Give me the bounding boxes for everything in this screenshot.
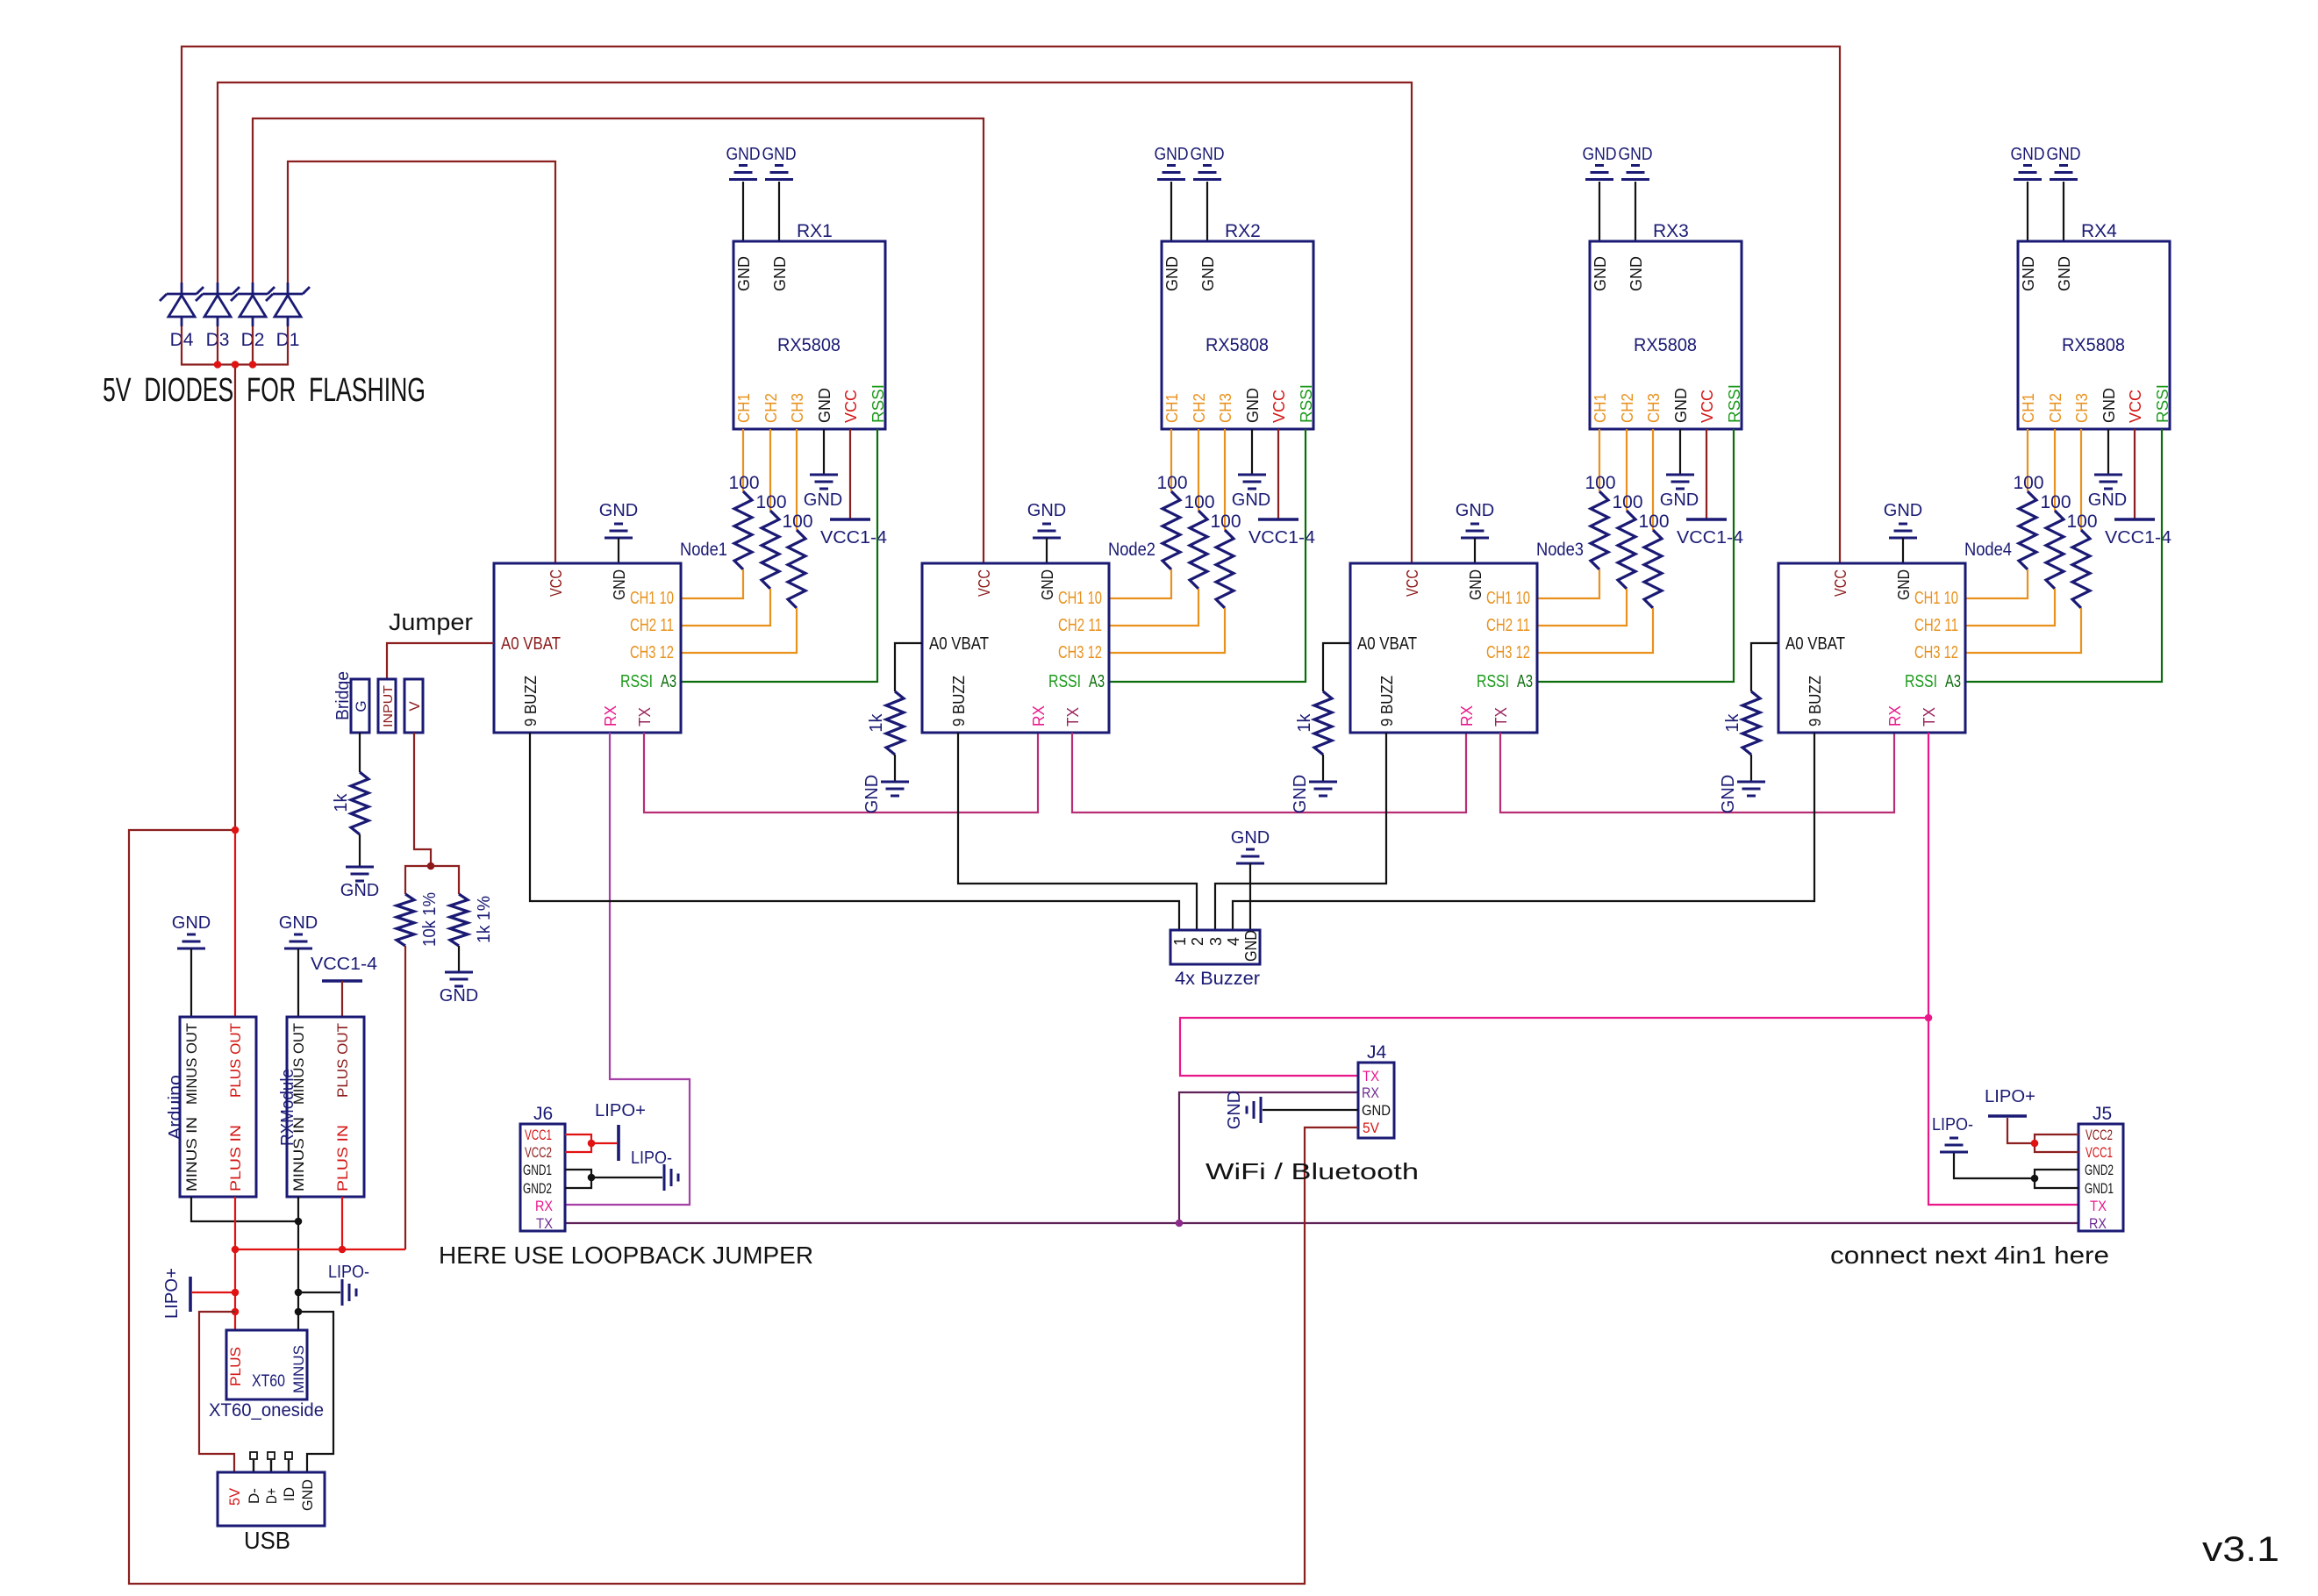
- svg-text:A0 VBAT: A0 VBAT: [929, 634, 989, 654]
- supply VCC1-4 at RX3: [1677, 519, 1743, 548]
- svg-text:GND: GND: [1244, 388, 1262, 423]
- ground GND left above RX2: [1155, 145, 1189, 180]
- svg-text:A3: A3: [661, 672, 676, 691]
- wire RX2 GND pin2 to ground: [1206, 182, 1208, 241]
- svg-text:PLUS: PLUS: [227, 1347, 244, 1386]
- svg-text:VCC1: VCC1: [525, 1127, 552, 1143]
- resistor 100 CH1 channel 3: [1585, 473, 1615, 569]
- svg-text:V: V: [406, 701, 423, 712]
- terminal LIPO+ at J5: [1985, 1087, 2035, 1116]
- wire J6 GND1 GND2 to LIPO-: [565, 1170, 591, 1188]
- svg-text:MINUS OUT: MINUS OUT: [183, 1023, 200, 1105]
- svg-text:Node3: Node3: [1536, 540, 1584, 560]
- svg-text:CH1 10: CH1 10: [1914, 589, 1958, 608]
- svg-text:GND1: GND1: [523, 1162, 552, 1178]
- svg-text:GND: GND: [340, 881, 379, 900]
- svg-text:GND: GND: [1719, 775, 1738, 813]
- ground above Node3: [1456, 501, 1494, 538]
- wire buzzer GND: [1249, 863, 1251, 930]
- svg-text:GND: GND: [816, 388, 833, 423]
- resistor 1k at Node3: [1295, 691, 1332, 755]
- ground at J4: [1225, 1091, 1261, 1129]
- wire RX1 RSSI to Node1 RSSI: [681, 429, 877, 682]
- svg-text:100: 100: [1156, 473, 1187, 493]
- wire RX1 GND pin1 to ground: [742, 182, 744, 241]
- resistor 100 CH1 channel 2: [1156, 473, 1187, 569]
- svg-text:GND1: GND1: [2085, 1180, 2114, 1197]
- resistor 100 CH3 channel 2: [1210, 512, 1241, 608]
- svg-text:100: 100: [782, 512, 812, 532]
- wire RX3 GND pin1 to ground: [1599, 182, 1600, 241]
- wire resistor to Node3 CH2: [1537, 589, 1627, 626]
- wire RX4 GND pin to ground: [2107, 429, 2109, 474]
- wire serial Node2 TX to Node3 RX: [1072, 733, 1466, 812]
- svg-text:RX4: RX4: [2081, 221, 2117, 241]
- supply VCC1-4 at RX4: [2105, 519, 2171, 548]
- svg-text:GND: GND: [1231, 828, 1270, 848]
- wire J6 TX to J5 RX: [565, 1222, 2078, 1224]
- ground below Node4 1k: [1719, 775, 1765, 813]
- wire resistor to Node4 CH1: [1965, 569, 2028, 598]
- wire resistor to Node4 CH3: [1965, 608, 2081, 653]
- svg-text:10k 1%: 10k 1%: [420, 892, 440, 947]
- svg-text:CH3: CH3: [789, 393, 806, 423]
- svg-text:PLUS OUT: PLUS OUT: [334, 1023, 351, 1098]
- pad USB D+: [268, 1452, 275, 1472]
- wire RX3 CH3 to resistor: [1652, 429, 1654, 530]
- junction J5 GND: [2031, 1175, 2039, 1183]
- wire RX2 VCC to supply: [1277, 429, 1279, 519]
- svg-text:VCC: VCC: [1832, 569, 1849, 597]
- connector Bridge pin V: [404, 679, 423, 733]
- connector Bridge pin G: [351, 679, 369, 733]
- ground below Node2 1k: [862, 775, 909, 813]
- svg-text:5V: 5V: [226, 1487, 243, 1506]
- ground below RX3 GND pin: [1660, 475, 1699, 510]
- svg-text:CH3 12: CH3 12: [1486, 643, 1530, 662]
- wire J6 VCC1 VCC2 to LIPO+: [565, 1134, 591, 1152]
- connector 4x Buzzer: [1170, 930, 1260, 989]
- junction LIPO+: [232, 1289, 240, 1297]
- junction MINUS IN: [295, 1218, 303, 1226]
- junction LIPO-: [295, 1289, 303, 1297]
- terminal LIPO- at J6: [631, 1149, 678, 1191]
- wire J5 VCC1 VCC2 to LIPO+: [2035, 1134, 2078, 1152]
- svg-text:GND: GND: [1242, 930, 1260, 962]
- svg-text:VCC1: VCC1: [2085, 1144, 2113, 1161]
- svg-text:TX: TX: [1492, 707, 1510, 726]
- svg-text:GND: GND: [1027, 501, 1066, 520]
- svg-text:GND: GND: [1592, 256, 1609, 291]
- svg-text:CH3 12: CH3 12: [1058, 643, 1102, 662]
- wire RX4 VCC to supply: [2134, 429, 2136, 519]
- wire resistor to Node1 CH3: [681, 608, 797, 653]
- wire Node2 A0 VBAT to 1k: [895, 643, 922, 691]
- junction J6 VCC: [588, 1140, 596, 1148]
- svg-text:RSSI: RSSI: [1477, 672, 1509, 691]
- connector J5: [2078, 1104, 2123, 1232]
- junction diode bus / 5V feed: [232, 361, 240, 369]
- wire Node2 GND pin to ground: [1046, 538, 1048, 563]
- svg-text:RX5808: RX5808: [777, 335, 841, 355]
- junction J5 VCC: [2031, 1140, 2039, 1148]
- svg-text:USB: USB: [244, 1527, 290, 1554]
- wire RX4 GND pin2 to ground: [2063, 182, 2064, 241]
- wire RX3 GND pin2 to ground: [1635, 182, 1636, 241]
- wire 5V feed down from diode bus: [234, 365, 236, 831]
- wire diode bus D3 stub: [217, 326, 218, 365]
- resistor 100 CH3 channel 4: [2066, 512, 2097, 608]
- node block Node2: [922, 563, 1109, 733]
- svg-text:CH3 12: CH3 12: [1914, 643, 1958, 662]
- svg-text:G: G: [353, 700, 369, 712]
- svg-text:RX: RX: [1458, 705, 1476, 726]
- wire Node4 TX down: [1928, 733, 1929, 1018]
- svg-text:RX3: RX3: [1653, 221, 1689, 241]
- wire resistor to Node2 CH2: [1109, 589, 1198, 626]
- connector XT60: [209, 1330, 324, 1421]
- wire Arduino PLUS OUT to 5V feed: [234, 830, 236, 1017]
- svg-text:VCC2: VCC2: [525, 1144, 552, 1161]
- svg-text:VCC: VCC: [547, 569, 565, 597]
- svg-text:9 BUZZ: 9 BUZZ: [522, 676, 540, 726]
- junction PLUS IN RXModule: [339, 1246, 347, 1254]
- svg-text:CH1: CH1: [1592, 393, 1609, 423]
- wire RX3 VCC to supply: [1706, 429, 1707, 519]
- node block Node1: [494, 563, 681, 733]
- wire serial Node3 TX to Node4 RX: [1500, 733, 1894, 812]
- svg-text:GND: GND: [1191, 145, 1225, 164]
- wire resistor to Node4 CH2: [1965, 589, 2055, 626]
- svg-text:CH3: CH3: [1217, 393, 1234, 423]
- svg-text:RX: RX: [602, 705, 619, 726]
- svg-text:RX: RX: [1886, 705, 1904, 726]
- wire V to divider: [414, 733, 431, 866]
- ground below 1k 1%: [440, 972, 478, 1006]
- svg-text:CH1 10: CH1 10: [630, 589, 674, 608]
- svg-text:LIPO-: LIPO-: [631, 1149, 672, 1168]
- svg-text:PLUS OUT: PLUS OUT: [227, 1023, 244, 1098]
- wire RX2 RSSI to Node2 RSSI: [1109, 429, 1306, 682]
- wire J4 RX drop: [1179, 1092, 1358, 1223]
- wire Node1 A0 VBAT to INPUT jumper: [387, 643, 494, 679]
- junction XT60 PLUS: [232, 1308, 240, 1316]
- svg-text:1k 1%: 1k 1%: [475, 896, 494, 943]
- junction XT60 MINUS: [295, 1308, 303, 1316]
- wire RX1 GND pin2 to ground: [778, 182, 780, 241]
- junction J6 GND: [588, 1174, 596, 1182]
- module RX4 RX5808: [2018, 221, 2171, 429]
- svg-text:1k: 1k: [1295, 712, 1314, 732]
- wire Node4 BUZZ to buzzer pin 4: [1233, 733, 1814, 930]
- svg-text:100: 100: [2040, 492, 2071, 512]
- connector USB: [218, 1472, 325, 1554]
- svg-text:CH3: CH3: [1645, 393, 1663, 423]
- ground above Arduino: [172, 913, 211, 948]
- svg-text:5V: 5V: [1363, 1120, 1380, 1136]
- svg-text:CH1: CH1: [2020, 393, 2037, 423]
- wire 10k to PLUS IN bus: [404, 946, 406, 1249]
- svg-text:J5: J5: [2093, 1104, 2112, 1124]
- wire VBAT bus D3 to Node3 VCC: [218, 82, 1412, 563]
- svg-text:GND: GND: [1225, 1091, 1244, 1129]
- svg-text:A3: A3: [1089, 672, 1105, 691]
- wire divider to 10k: [405, 866, 431, 894]
- svg-text:GND: GND: [172, 913, 211, 933]
- wire serial Node1 TX to Node2 RX: [644, 733, 1038, 812]
- svg-text:A0 VBAT: A0 VBAT: [1785, 634, 1845, 654]
- svg-text:GND: GND: [804, 490, 842, 510]
- wire XT60 MINUS stub: [297, 1312, 299, 1330]
- svg-text:GND: GND: [1155, 145, 1189, 164]
- svg-text:VCC: VCC: [976, 569, 993, 597]
- diode D3: [196, 283, 240, 326]
- svg-text:RSSI: RSSI: [869, 384, 887, 423]
- svg-text:GND: GND: [726, 145, 761, 164]
- svg-text:CH1: CH1: [1163, 393, 1181, 423]
- svg-text:100: 100: [1638, 512, 1669, 532]
- svg-text:LIPO-: LIPO-: [1932, 1115, 1973, 1134]
- diode D1: [266, 283, 310, 326]
- svg-text:GND: GND: [2088, 490, 2127, 510]
- svg-text:J4: J4: [1367, 1042, 1387, 1063]
- pad USB D-: [250, 1452, 257, 1472]
- svg-text:GND: GND: [1291, 775, 1310, 813]
- ground below bridge 1k: [340, 867, 379, 900]
- resistor 100 CH3 channel 1: [782, 512, 812, 608]
- junction divider node: [427, 862, 435, 870]
- svg-text:RX1: RX1: [797, 221, 833, 241]
- connector J6: [520, 1104, 565, 1232]
- block RXModule: [278, 1017, 364, 1197]
- svg-text:TX: TX: [636, 707, 654, 726]
- wire XT60 PLUS stub: [234, 1312, 236, 1330]
- svg-text:CH2: CH2: [1619, 393, 1636, 423]
- wire RX1 CH3 to resistor: [796, 429, 798, 530]
- svg-text:1k: 1k: [1723, 712, 1742, 732]
- wire diode anode bus: [182, 326, 288, 365]
- svg-text:3: 3: [1207, 937, 1225, 946]
- svg-text:100: 100: [1210, 512, 1241, 532]
- terminal LIPO+ bottom: [162, 1268, 190, 1319]
- svg-text:GND: GND: [1199, 256, 1217, 291]
- svg-text:RX: RX: [535, 1198, 553, 1214]
- ground below RX1 GND pin: [804, 475, 842, 510]
- ground below Node3 1k: [1291, 775, 1337, 813]
- block Arduino: [166, 1017, 256, 1197]
- svg-text:J6: J6: [533, 1104, 553, 1124]
- wire RXModule PLUS IN stub: [341, 1197, 343, 1249]
- svg-text:WiFi / Bluetooth: WiFi / Bluetooth: [1206, 1158, 1419, 1184]
- svg-text:100: 100: [1612, 492, 1642, 512]
- svg-text:connect next 4in1 here: connect next 4in1 here: [1830, 1242, 2109, 1269]
- svg-text:GND: GND: [1583, 145, 1617, 164]
- wire RX1 GND pin to ground: [823, 429, 825, 474]
- connector J4: [1358, 1042, 1394, 1138]
- wire 1k to ground Node3: [1322, 755, 1324, 782]
- pad USB ID: [285, 1452, 292, 1472]
- svg-text:XT60_oneside: XT60_oneside: [209, 1400, 324, 1421]
- wire RX1 CH1 to resistor: [742, 429, 744, 491]
- wire RX3 GND pin to ground: [1679, 429, 1681, 474]
- svg-text:CH1: CH1: [735, 393, 753, 423]
- diode D4: [160, 283, 204, 326]
- wire Arduino PLUS IN vertical: [234, 1197, 236, 1312]
- ground GND right above RX4: [2047, 145, 2081, 180]
- svg-text:1: 1: [1171, 937, 1189, 946]
- svg-text:1k: 1k: [867, 712, 886, 732]
- wire J5 GND1 GND2 to LIPO-: [2035, 1170, 2078, 1188]
- svg-text:9 BUZZ: 9 BUZZ: [1378, 676, 1396, 726]
- svg-text:ID: ID: [281, 1487, 297, 1501]
- wire TX net to J4 TX: [1180, 1018, 1928, 1076]
- wire resistor to Node2 CH3: [1109, 608, 1225, 653]
- svg-text:4x Buzzer: 4x Buzzer: [1175, 969, 1260, 989]
- ground above Node4: [1884, 501, 1922, 538]
- wire TX net to J5 TX: [1928, 1018, 2078, 1205]
- wire VBAT bus D4 to Node4 VCC: [182, 47, 1840, 563]
- svg-text:VCC: VCC: [842, 390, 860, 423]
- svg-text:CH3: CH3: [2073, 393, 2091, 423]
- svg-text:100: 100: [1585, 473, 1615, 493]
- wire resistor to Node1 CH1: [681, 569, 743, 598]
- wire VBAT bus D1 to Node1 VCC: [288, 161, 555, 563]
- wire Node1 BUZZ to buzzer pin 1: [530, 733, 1179, 930]
- wire 1k to ground: [359, 834, 361, 867]
- svg-text:GND: GND: [862, 775, 882, 813]
- svg-text:GND: GND: [1884, 501, 1922, 520]
- svg-text:1k: 1k: [332, 792, 351, 812]
- svg-text:GND: GND: [279, 913, 318, 933]
- wire Node4 A0 VBAT to 1k: [1751, 643, 1778, 691]
- wire divider to 1k 1%: [431, 866, 459, 894]
- svg-text:GND: GND: [440, 986, 478, 1006]
- ground above RXModule: [279, 913, 318, 948]
- svg-text:CH2 11: CH2 11: [1914, 616, 1958, 635]
- ground GND right above RX2: [1191, 145, 1225, 180]
- node block Node4: [1778, 563, 1965, 733]
- svg-text:GND2: GND2: [523, 1180, 552, 1197]
- svg-text:MINUS OUT: MINUS OUT: [290, 1023, 307, 1105]
- svg-text:TX: TX: [1363, 1068, 1379, 1084]
- svg-text:RSSI: RSSI: [1048, 672, 1081, 691]
- wire RX1 VCC to supply: [849, 429, 851, 519]
- svg-text:VCC: VCC: [2127, 390, 2144, 423]
- svg-text:v3.1: v3.1: [2202, 1530, 2279, 1569]
- svg-text:VCC: VCC: [1404, 569, 1421, 597]
- svg-text:RSSI: RSSI: [2154, 384, 2171, 423]
- ground below RX4 GND pin: [2088, 475, 2127, 510]
- wire RX2 CH1 to resistor: [1170, 429, 1172, 491]
- supply VCC1-4 at RX2: [1248, 519, 1315, 548]
- svg-text:GND: GND: [2020, 256, 2037, 291]
- svg-text:RX: RX: [2089, 1215, 2107, 1232]
- svg-text:RSSI: RSSI: [1298, 384, 1315, 423]
- ground above Node2: [1027, 501, 1066, 538]
- svg-text:9 BUZZ: 9 BUZZ: [950, 676, 968, 726]
- wire RX4 CH2 to resistor: [2054, 429, 2056, 511]
- wire Node2 BUZZ to buzzer pin 2: [958, 733, 1197, 930]
- wire Arduino MINUS IN to RXModule MINUS IN: [191, 1197, 298, 1221]
- ground GND left above RX4: [2011, 145, 2045, 180]
- resistor 1k at Node2: [867, 691, 904, 755]
- ground GND left above RX1: [726, 145, 761, 180]
- resistor 100 CH1 channel 4: [2013, 473, 2043, 569]
- wire RX2 CH3 to resistor: [1224, 429, 1226, 530]
- junction diode bus / D3: [214, 361, 222, 369]
- wire USB GND to XT60 MINUS: [298, 1312, 333, 1472]
- wire RXModule MINUS OUT to ground: [297, 948, 299, 1017]
- svg-text:9 BUZZ: 9 BUZZ: [1806, 676, 1824, 726]
- wire diode bus D2 stub: [252, 326, 254, 365]
- resistor 100 CH2 channel 1: [755, 492, 786, 589]
- wire RX2 CH2 to resistor: [1198, 429, 1199, 511]
- svg-text:100: 100: [2066, 512, 2097, 532]
- wire resistor to Node1 CH2: [681, 589, 770, 626]
- module RX1 RX5808: [733, 221, 887, 429]
- wire RX4 GND pin1 to ground: [2027, 182, 2028, 241]
- svg-text:RX: RX: [1030, 705, 1048, 726]
- resistor 10k 1%: [397, 892, 440, 947]
- wire USB 5V to XT60 PLUS: [199, 1312, 235, 1472]
- svg-text:TX: TX: [1921, 707, 1938, 726]
- svg-text:XT60: XT60: [252, 1372, 285, 1391]
- svg-text:GND: GND: [1619, 145, 1653, 164]
- wire J4 GND to ground: [1263, 1109, 1358, 1111]
- svg-text:GND: GND: [599, 501, 638, 520]
- svg-text:GND: GND: [1895, 569, 1913, 600]
- junction PLUS IN Arduino: [232, 1246, 240, 1254]
- svg-text:CH3 12: CH3 12: [630, 643, 674, 662]
- svg-text:VCC2: VCC2: [2085, 1127, 2113, 1143]
- terminal LIPO- bottom: [328, 1263, 369, 1306]
- svg-text:RSSI: RSSI: [1905, 672, 1937, 691]
- wire RX3 CH2 to resistor: [1626, 429, 1628, 511]
- svg-text:CH2 11: CH2 11: [1486, 616, 1530, 635]
- ground GND right above RX3: [1619, 145, 1653, 180]
- diode D2: [231, 283, 275, 326]
- svg-text:D-: D-: [246, 1488, 262, 1504]
- wire resistor to Node2 CH1: [1109, 569, 1171, 598]
- svg-text:GND: GND: [1628, 256, 1645, 291]
- svg-text:LIPO-: LIPO-: [328, 1263, 369, 1282]
- wire RX3 CH1 to resistor: [1599, 429, 1600, 491]
- wire Node3 GND pin to ground: [1474, 538, 1476, 563]
- wire RX4 CH3 to resistor: [2080, 429, 2082, 530]
- svg-text:GND2: GND2: [2085, 1162, 2114, 1178]
- wire resistor to Node3 CH1: [1537, 569, 1599, 598]
- module RX2 RX5808: [1162, 221, 1315, 429]
- svg-text:Node4: Node4: [1964, 540, 2012, 560]
- svg-text:GND: GND: [1456, 501, 1494, 520]
- svg-text:LIPO+: LIPO+: [162, 1268, 182, 1319]
- svg-text:Node2: Node2: [1108, 540, 1155, 560]
- connector Bridge pin INPUT: [378, 679, 396, 733]
- svg-text:RSSI: RSSI: [1726, 384, 1743, 423]
- svg-text:LIPO+: LIPO+: [1985, 1087, 2035, 1106]
- wire 1k 1% to ground: [458, 946, 460, 972]
- svg-text:PLUS IN: PLUS IN: [227, 1125, 244, 1192]
- ground GND left above RX3: [1583, 145, 1617, 180]
- svg-text:100: 100: [1184, 492, 1214, 512]
- module RX3 RX5808: [1590, 221, 1743, 429]
- ground above Node1: [599, 501, 638, 538]
- wire RX2 GND pin1 to ground: [1170, 182, 1172, 241]
- svg-text:RX2: RX2: [1225, 221, 1261, 241]
- svg-text:VCC1-4: VCC1-4: [311, 955, 377, 974]
- svg-text:CH1 10: CH1 10: [1058, 589, 1102, 608]
- wire LIPO+ to PLUS bus: [192, 1292, 235, 1293]
